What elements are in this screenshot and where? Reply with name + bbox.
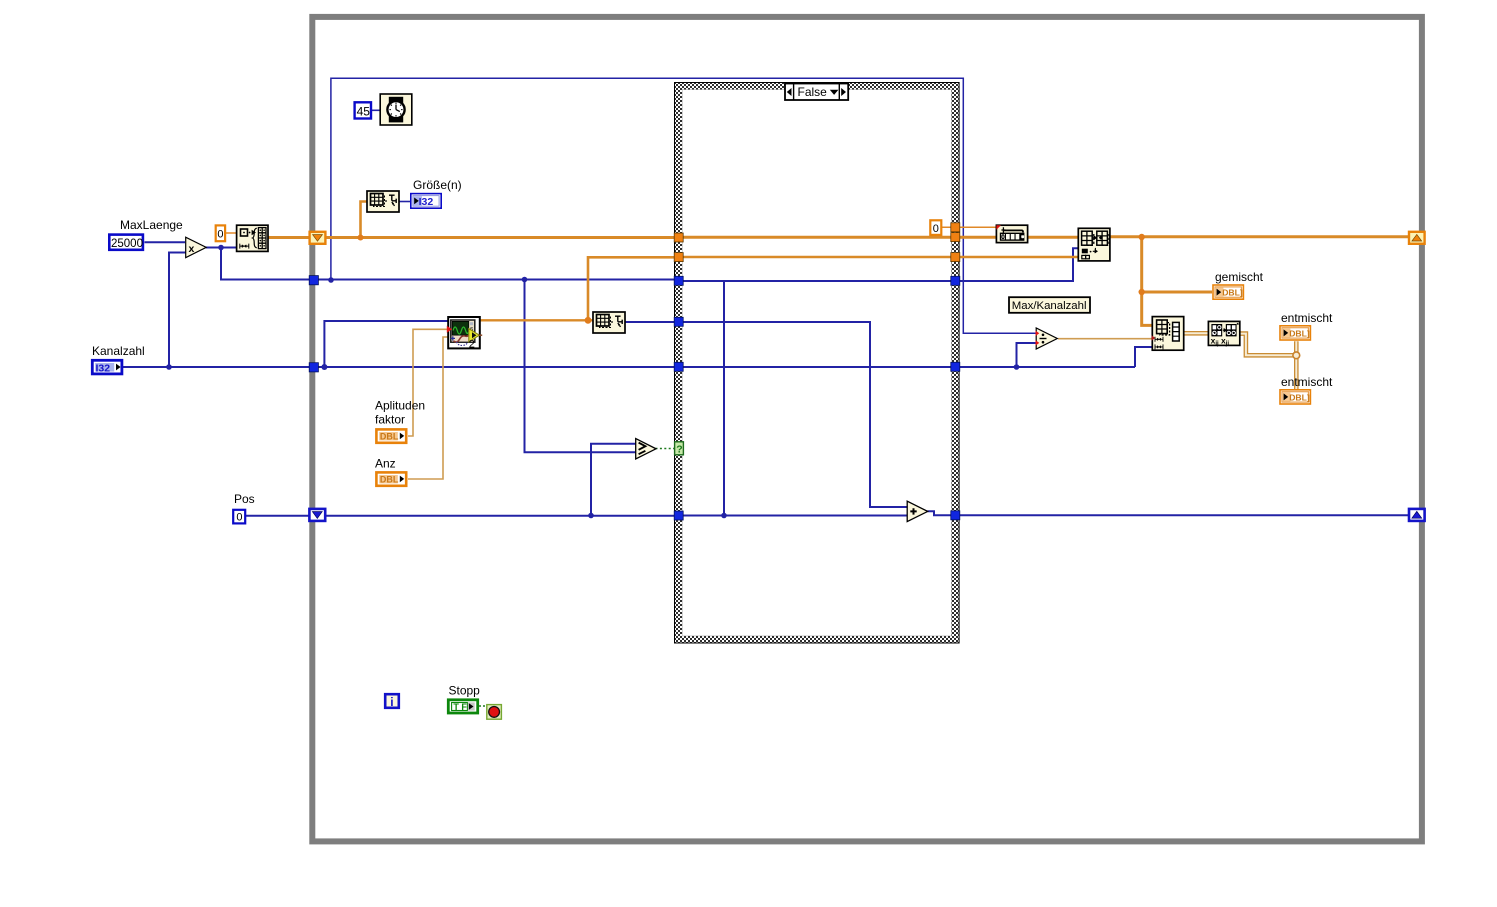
wire: 2D array reshape to transpose — [1184, 331, 1208, 336]
divide node — [1036, 328, 1058, 349]
numeric constant 45 — [355, 102, 371, 118]
label Max/Kanalzahl — [1009, 297, 1090, 313]
transpose 2d array node — [1208, 321, 1239, 347]
svg-text:25000: 25000 — [111, 238, 143, 250]
svg-text:I32: I32 — [419, 196, 434, 208]
svg-text:Aplituden: Aplituden — [375, 399, 425, 413]
wait until next ms multiple node — [380, 94, 412, 125]
case tunnel: orange main right — [951, 233, 960, 242]
svg-text:0: 0 — [217, 229, 223, 241]
wire: MaxLaenge 25000 to multiply — [145, 241, 186, 243]
while loop border — [312, 17, 1422, 842]
wire: Kanalzahl branch up to multiply lower input — [169, 253, 186, 368]
wire: y280 run inside case and to replace-array icon — [683, 248, 1078, 515]
case tunnel: boolean question left — [675, 442, 684, 456]
junction dots navy — [166, 364, 172, 370]
control Kanalzahl I32 — [92, 360, 122, 374]
svg-text:DBL]: DBL] — [1289, 392, 1310, 402]
control Anz DBL — [376, 472, 406, 485]
junction dots orange — [358, 235, 364, 241]
control Aplitudenfaktor DBL — [376, 429, 406, 442]
multiply node — [186, 237, 207, 257]
svg-text:MaxLaenge: MaxLaenge — [120, 218, 183, 232]
svg-text:Größe(n): Größe(n) — [413, 178, 462, 192]
numeric constant 0 (Pos) — [233, 510, 245, 524]
wire: Kanalzahl I32 main run y=367 — [123, 347, 1152, 367]
case tunnel: blue Kanalzahl right — [951, 362, 960, 371]
array size node 1 — [367, 191, 399, 212]
numeric constant 25000 — [109, 235, 143, 250]
shift register right blue — [1409, 509, 1425, 521]
case tunnel: blue Pos right — [951, 511, 960, 520]
iteration terminal i — [385, 694, 399, 709]
wire: Pos branch up to greater-equal upper input — [591, 444, 636, 516]
control Stopp TF — [448, 700, 477, 713]
numeric constant 0 (init array element) — [216, 225, 225, 241]
wire: orange branch up to array size 1 — [361, 202, 368, 238]
loop tunnel: blue Kanalzahl — [309, 363, 318, 372]
reshape array node — [1152, 317, 1184, 351]
loop tunnel: blue y280 — [309, 276, 318, 285]
wire: 0 constant to init array element input — [226, 232, 237, 234]
wire: replace-array output branch down to gemischt and reshape — [1142, 237, 1212, 325]
wire: array size 1 output to I32 indicator — [399, 201, 410, 203]
case tunnel: thin orange 0 right — [951, 223, 960, 232]
wire: case interior y=322 down to add upper input — [625, 322, 907, 507]
wire: Kanalzahl branch to divide lower input — [1017, 343, 1037, 367]
wire: add node output to right tunnel — [928, 511, 952, 515]
wire: orange branch up to case tunnel y=257 — [588, 257, 1078, 320]
wire: divide output to reshape — [1058, 338, 1152, 340]
svg-text:DBL]: DBL] — [1222, 288, 1243, 298]
wire: express VI output to array size 2 — [480, 319, 593, 321]
svg-text:gemischt: gemischt — [1215, 270, 1264, 284]
svg-text:i: i — [390, 695, 393, 709]
wire: main orange array y=237.5 — [268, 235, 1409, 239]
svg-text:entmischt: entmischt — [1281, 311, 1333, 325]
wire: 0 constant inside case to rotate icon — [942, 226, 996, 228]
wire: Pos run y=515.5 — [246, 514, 1409, 516]
case tunnel: orange y257 right — [951, 253, 960, 262]
svg-text:T F: T F — [453, 702, 467, 712]
array size node 2 — [593, 312, 625, 333]
svg-text:I32: I32 — [96, 362, 111, 374]
rotate 1d array node — [996, 225, 1027, 242]
svg-text:DBL: DBL — [380, 432, 399, 442]
case tunnel: blue y280 right — [951, 276, 960, 285]
svg-text:?: ? — [676, 443, 682, 455]
svg-text:faktor: faktor — [375, 413, 405, 427]
case tunnel: orange y257 left — [674, 253, 683, 262]
case tunnel: orange main left — [674, 233, 683, 242]
svg-text:x: x — [189, 243, 195, 255]
shift register left blue (Pos) — [309, 509, 325, 521]
svg-text:False: False — [798, 85, 828, 99]
shift register right orange — [1409, 232, 1425, 244]
indicator Groesse(n) I32 — [411, 194, 441, 209]
case tunnel: blue y322 left — [674, 317, 683, 326]
case tunnel: blue Kanalzahl left — [674, 362, 683, 371]
wire: branch y280 down to greater-equal lower input — [525, 280, 636, 453]
svg-text:DBL: DBL — [380, 475, 399, 485]
wire: route around case (MaxLaenge*Kanalzahl) — [331, 78, 1036, 333]
svg-text:DBL]: DBL] — [1289, 328, 1310, 338]
svg-text:Max/Kanalzahl: Max/Kanalzahl — [1012, 300, 1087, 312]
wire: 45 to wait ms — [372, 109, 380, 111]
replace array subset node — [1078, 228, 1110, 261]
initialize array node — [237, 225, 268, 251]
loop condition stop terminal — [487, 705, 502, 720]
shift register left orange — [310, 232, 326, 244]
wire junction: 2D array branch circle — [1293, 352, 1300, 359]
case structure border — [675, 83, 960, 644]
add node — [907, 501, 928, 521]
svg-text:Kanalzahl: Kanalzahl — [92, 344, 145, 358]
svg-text:45: 45 — [357, 104, 371, 118]
svg-text:Pos: Pos — [234, 492, 255, 506]
svg-text:2: 2 — [469, 339, 475, 351]
wire: 2D array transpose to entmischt indicators — [1240, 334, 1293, 356]
case tunnel: blue Pos left — [674, 511, 683, 520]
wire: Stopp TF dotted to stop terminal — [479, 705, 486, 707]
svg-text:entmischt: entmischt — [1281, 375, 1333, 389]
svg-text:Stopp: Stopp — [449, 684, 481, 698]
wire: multiply output to init array + branch down — [206, 248, 675, 280]
svg-text:0: 0 — [933, 223, 939, 235]
case tunnel: blue y280 left — [674, 276, 683, 285]
indicator entmischt 1 DBL — [1280, 326, 1310, 340]
case selector label False — [785, 84, 848, 101]
greater-equal node — [636, 439, 656, 459]
wire: Aplitudenfaktor to express VI — [408, 329, 448, 436]
wire: Anz to express VI — [408, 337, 448, 479]
indicator gemischt DBL — [1213, 285, 1243, 299]
express VI DAQ assistant 2 — [447, 317, 482, 351]
indicator entmischt 2 DBL — [1280, 390, 1310, 404]
numeric constant 0 (case) — [930, 220, 941, 235]
wire: greater-equal boolean dotted to case tunnel — [656, 448, 675, 450]
svg-text:Anz: Anz — [375, 457, 396, 471]
wire: Kanalzahl branch up to express VI input 1 — [324, 321, 448, 367]
svg-text:0: 0 — [236, 512, 242, 524]
